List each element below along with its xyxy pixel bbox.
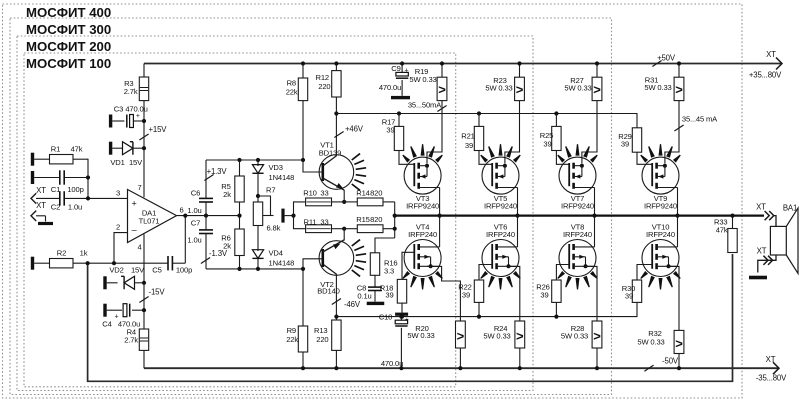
svg-text:IRFP240: IRFP240 [408, 230, 437, 239]
wire +50V rail [144, 63, 782, 65]
svg-text:XT: XT [36, 201, 46, 210]
node VT7 drain on output rail [592, 214, 596, 218]
mosfet VT5 IRFP9240 [482, 157, 519, 194]
svg-text:VD3: VD3 [269, 163, 283, 172]
ground bar speaker return [749, 276, 767, 280]
connector pin bar for VD2 [103, 276, 106, 289]
capacitor C8 [374, 275, 376, 286]
svg-text:2.7k: 2.7k [124, 336, 138, 345]
node R14 column on output rail [393, 214, 397, 218]
capacitor C4 electrolytic [107, 309, 122, 311]
svg-text:-1.3V: -1.3V [209, 249, 228, 258]
measuring slash -15V [139, 296, 148, 302]
heatsink of VT3 [402, 155, 410, 163]
diode VD3 [257, 160, 259, 166]
wire VT5 drain to output rail [517, 188, 519, 216]
node VD3 top [256, 158, 260, 162]
node R3 C3 junction [142, 119, 146, 123]
svg-text:2.7k: 2.7k [124, 87, 138, 96]
ground bar below C9 [391, 96, 410, 99]
wire to VT1 base [303, 160, 322, 172]
resistor R1 [50, 155, 74, 164]
resistor R23 5W 0.33 source top [519, 64, 521, 78]
svg-text:R9: R9 [287, 326, 296, 335]
node R13 on -50V rail [334, 366, 338, 370]
wire C5 riser to pin6 rail [184, 216, 186, 264]
wire VT10 drain to output rail [677, 216, 679, 247]
svg-text:XT: XT [757, 247, 767, 256]
svg-text:>: > [438, 82, 446, 97]
wiper arrow of R7 [263, 215, 274, 217]
svg-text:МОСФИТ 200: МОСФИТ 200 [26, 39, 111, 54]
wire pin 4 to -15V node [143, 234, 145, 368]
svg-text:820: 820 [370, 188, 382, 197]
svg-text:5W 0.33: 5W 0.33 [644, 83, 671, 92]
wire contact to R10 R11 node [285, 215, 294, 217]
connector XT pin for C1 [31, 171, 34, 184]
svg-text:>: > [675, 336, 683, 351]
svg-text:35...45 mA: 35...45 mA [682, 115, 718, 124]
capacitor C3 electrolytic [112, 120, 124, 122]
mosfet VT8 IRFP240 [559, 240, 596, 277]
svg-text:39: 39 [465, 141, 473, 150]
svg-text:39: 39 [540, 290, 548, 299]
wire VT6 source to R24 [508, 266, 520, 321]
wire R26 to VT8 gate [556, 265, 569, 281]
resistor R15 [344, 228, 357, 230]
svg-text:22k: 22k [286, 335, 298, 344]
svg-text:R13: R13 [314, 326, 327, 335]
node VT1 collector gate bus tee [334, 111, 338, 115]
svg-text:C5: C5 [152, 265, 161, 274]
svg-text:-50V: -50V [662, 356, 679, 365]
wire R1 to input node [87, 159, 89, 199]
resistor R8 [298, 78, 307, 101]
wire feedback bottom return [88, 254, 733, 381]
enclosure MOSFIT 300 dashed box [10, 18, 612, 395]
2W marks in R3 [140, 87, 148, 89]
svg-text:2k: 2k [223, 190, 231, 199]
node VT5 drain on output rail [515, 214, 519, 218]
resistor R12 [332, 71, 341, 97]
transistor VT1 BD139 [319, 155, 354, 190]
svg-text:-46V: -46V [344, 300, 361, 309]
svg-text:1N4148: 1N4148 [269, 259, 295, 268]
svg-text:IRFP9240: IRFP9240 [561, 202, 594, 211]
resistor R24 5W 0.33 source bottom [515, 321, 525, 348]
wire R22 to VT6 gate [479, 265, 492, 281]
svg-text:IRFP240: IRFP240 [563, 230, 592, 239]
svg-text:470.0u: 470.0u [381, 359, 403, 368]
svg-text:>: > [675, 82, 683, 97]
wire R23 to VT5 source [505, 101, 520, 164]
resistor R31 5W 0.33 source top [678, 64, 680, 78]
heatsink of VT5 [480, 155, 488, 163]
measuring slash +15V [139, 134, 148, 140]
svg-text:7: 7 [137, 183, 141, 192]
svg-text:C4: C4 [102, 319, 111, 328]
capacitor C9 electrolytic [401, 64, 403, 73]
svg-text:820: 820 [370, 215, 382, 224]
svg-text:R1: R1 [51, 145, 60, 154]
svg-text:5W 0.33: 5W 0.33 [637, 337, 664, 346]
resistor R22 gate bottom [474, 280, 483, 302]
svg-text:39: 39 [543, 140, 551, 149]
wire bottom bias rail [206, 268, 303, 270]
mosfet VT3 IRFP9240 [404, 157, 441, 194]
resistor R19 5W 0.33 source top [441, 64, 443, 78]
svg-text:IRFP9240: IRFP9240 [484, 202, 517, 211]
resistor R21 gate top [477, 111, 481, 115]
resistor R11 [306, 225, 332, 233]
svg-text:2k: 2k [223, 241, 231, 250]
speaker BA1 [770, 226, 786, 255]
svg-text:33: 33 [320, 188, 328, 197]
svg-text:R8: R8 [287, 79, 296, 88]
wire VT6 drain to output rail [517, 216, 519, 247]
resistor R33 [732, 216, 734, 229]
svg-text:220: 220 [316, 335, 328, 344]
resistor R5 [239, 160, 241, 176]
wire pin 7 to +15V node [143, 64, 145, 198]
svg-text:5W 0.33: 5W 0.33 [561, 331, 588, 340]
resistor R20 5W 0.33 source bottom [456, 321, 466, 348]
trimmer R7 [257, 196, 259, 202]
svg-text:1.0u: 1.0u [68, 203, 82, 212]
svg-text:R10: R10 [303, 188, 316, 197]
svg-text:+1.3V: +1.3V [207, 167, 228, 176]
svg-text:2: 2 [116, 223, 120, 232]
svg-text:+: + [131, 198, 136, 208]
2W marks in R4 [140, 337, 148, 339]
svg-text:1N4148: 1N4148 [269, 173, 295, 182]
wire VT8 drain to output rail [594, 216, 596, 247]
wire split to R11 row [294, 216, 306, 229]
zener diode VD1 [112, 147, 122, 149]
node R8 bias rail junction [301, 158, 305, 162]
node VD2 junction [142, 281, 146, 285]
capacitor C10 electrolytic [395, 313, 408, 316]
wire VT7 drain to output rail [594, 188, 596, 216]
node R10 R11 split [291, 214, 295, 218]
svg-text:+: + [405, 68, 409, 75]
wire R21 to VT5 gate [479, 151, 492, 165]
node VT2 emitter junction [342, 227, 346, 231]
node R5 top [237, 158, 241, 162]
svg-text:IRFP240: IRFP240 [646, 230, 675, 239]
wire -50V rail [144, 367, 779, 369]
wire pin 2 feedback [114, 233, 128, 264]
svg-text:6.8k: 6.8k [267, 224, 281, 233]
svg-text:R7: R7 [266, 186, 275, 195]
svg-text:R15: R15 [356, 215, 369, 224]
wire R31 to VT9 source [665, 101, 679, 164]
arrow speaker return double chevron [763, 256, 768, 265]
node C10 on -50V rail [399, 366, 403, 370]
svg-text:XT: XT [36, 186, 46, 195]
resistor R30 gate bottom [632, 280, 641, 302]
wire R30 to VT10 gate [637, 265, 652, 281]
node VT1 emitter junction [342, 200, 346, 204]
wire VT1 collector [335, 97, 337, 155]
svg-text:39: 39 [621, 140, 629, 149]
node input junction C2 [86, 196, 90, 200]
resistor R16 [370, 253, 379, 275]
wire to VT2 base [303, 259, 322, 269]
zener diode VD2 [107, 282, 118, 284]
svg-text:5W 0.33: 5W 0.33 [564, 84, 591, 93]
connector XT pin for R1 [31, 153, 34, 166]
node feedback junction [86, 261, 90, 265]
svg-text:МОСФИТ 400: МОСФИТ 400 [26, 5, 111, 20]
arrow -50V rail to XT [773, 362, 779, 374]
svg-text:1.0u: 1.0u [187, 206, 201, 215]
wire VT4 source to R20 [427, 266, 460, 321]
svg-text:+: + [136, 113, 140, 120]
svg-text:R11: R11 [304, 217, 317, 226]
svg-text:BD139: BD139 [319, 148, 341, 157]
resistor R32 5W 0.33 source bottom [674, 330, 684, 353]
measuring slash +1.3V [204, 174, 213, 180]
measuring slash on +50V rail [652, 60, 661, 66]
resistor R4 [139, 329, 148, 350]
wire VT4 drain to output rail [439, 216, 441, 247]
svg-text:XT: XT [766, 50, 776, 59]
node VT3 drain on output rail [438, 214, 442, 218]
svg-text:XT: XT [766, 355, 776, 364]
ground bar below C8 [367, 302, 385, 305]
enclosure MOSFIT 100 dashed box [24, 53, 456, 387]
node R33 on output rail [730, 214, 734, 218]
svg-text:R12: R12 [316, 73, 329, 82]
resistor R6 [239, 216, 241, 229]
svg-text:IRFP240: IRFP240 [486, 230, 515, 239]
node pin2 junction [112, 261, 116, 265]
svg-text:4: 4 [137, 243, 141, 252]
svg-text:470.0u: 470.0u [125, 105, 147, 114]
resistor R3 [139, 77, 148, 101]
svg-text:–: – [132, 224, 137, 234]
measuring slash +46V [334, 131, 343, 137]
resistor R26 gate bottom [552, 280, 561, 302]
svg-text:>: > [593, 82, 601, 97]
node R15 corner [393, 227, 397, 231]
svg-text:100p: 100p [176, 265, 192, 274]
capacitor C6 [205, 160, 207, 198]
transistor VT2 BD140 [319, 241, 354, 276]
svg-text:100p: 100p [67, 185, 83, 194]
heatsink of VT1 [352, 154, 360, 160]
measuring slash on -50V rail [644, 365, 653, 371]
svg-text:VD4: VD4 [269, 249, 283, 258]
wire VT2 emitter [343, 229, 345, 241]
svg-text:R2: R2 [57, 249, 66, 258]
resistor R9 [302, 269, 304, 326]
svg-text:C2: C2 [51, 203, 60, 212]
svg-text:33: 33 [320, 217, 328, 226]
measuring slash -46V [332, 298, 341, 304]
svg-text:>: > [457, 329, 465, 344]
svg-text:+15V: +15V [149, 125, 168, 134]
resistor R27 5W 0.33 source top [596, 64, 598, 78]
node VD1 junction [142, 146, 146, 150]
diode VD4 [252, 250, 263, 259]
wire bottom gate bus [336, 302, 637, 316]
svg-text:1.0u: 1.0u [187, 235, 201, 244]
arrow XT input ground to chassis [31, 211, 36, 221]
svg-text:R21: R21 [461, 132, 474, 141]
svg-text:15V: 15V [131, 265, 145, 274]
wire R25 to VT7 gate [556, 151, 569, 165]
mosfet VT9 IRFP9240 [642, 157, 679, 194]
measuring slash -1.3V [201, 257, 210, 263]
resistor R2 [34, 262, 49, 264]
ground chassis bar at input [38, 222, 53, 225]
svg-text:TL071: TL071 [139, 216, 160, 225]
wire VT3 drain to output rail [439, 188, 441, 216]
wire VT8 source to R28 [585, 266, 597, 321]
svg-text:47k: 47k [716, 225, 728, 234]
capacitor C7 [205, 216, 207, 230]
svg-text:15V: 15V [129, 158, 143, 167]
node VT2 collector gate bus tee [334, 315, 338, 319]
svg-text:5W 0.33: 5W 0.33 [409, 75, 436, 84]
svg-text:+35...80V: +35...80V [749, 71, 782, 80]
wire VT2 collector [335, 275, 337, 321]
wire top gate bus [336, 114, 637, 128]
connector pin bar for C4 [103, 304, 106, 317]
svg-text:5W 0.33: 5W 0.33 [485, 84, 512, 93]
svg-text:39: 39 [386, 126, 394, 135]
resistor R29 gate top [632, 128, 641, 152]
arrow +50V rail to XT [776, 58, 782, 70]
capacitor C2 [59, 191, 61, 205]
node VT9 drain on output rail [675, 214, 679, 218]
svg-text:C1: C1 [51, 185, 60, 194]
svg-text:C7: C7 [191, 218, 200, 227]
heatsink of VT10 [640, 271, 648, 279]
resistor R28 5W 0.33 source bottom [592, 321, 602, 348]
svg-text:>: > [516, 329, 524, 344]
capacitor C1 [34, 177, 59, 179]
op-amp DA1 TL071 triangle [128, 190, 177, 243]
wire R29 to VT9 gate [637, 152, 652, 164]
wire output arrow into speaker [774, 216, 776, 227]
svg-text:-15V: -15V [149, 287, 166, 296]
mosfet VT6 IRFP240 [482, 240, 519, 277]
wire output rail [395, 214, 764, 216]
wire VT10 source to R32 [668, 266, 679, 330]
svg-text:VD1: VD1 [110, 158, 124, 167]
svg-text:МОСФИТ 100: МОСФИТ 100 [26, 56, 111, 71]
svg-text:5W 0.33: 5W 0.33 [407, 331, 434, 340]
svg-text:>: > [516, 82, 524, 97]
connector pin bar for VD1 [109, 142, 112, 155]
enclosure MOSFIT 200 dashed box [17, 36, 533, 391]
wire top bias rail [206, 159, 303, 161]
resistor R17 gate top [397, 111, 401, 115]
wire pin 6 output [177, 215, 240, 217]
heatsink of VT8 [557, 271, 565, 279]
wire split to R10 row [294, 202, 306, 216]
mosfet VT10 IRFP240 [642, 240, 679, 277]
svg-text:C6: C6 [191, 188, 200, 197]
heatsink of VT6 [480, 271, 488, 279]
heatsink of VT7 [557, 155, 565, 163]
svg-text:6: 6 [179, 205, 183, 214]
svg-text:39: 39 [625, 292, 633, 301]
svg-text:C9: C9 [391, 64, 400, 73]
node input junction C1 [86, 175, 90, 179]
wire to R16 [375, 238, 395, 253]
wire speaker return [758, 255, 776, 273]
svg-text:>: > [593, 329, 601, 344]
resistor R13 [332, 320, 341, 350]
resistor R10 [306, 198, 332, 206]
svg-text:47k: 47k [71, 145, 83, 154]
heatsink of VT4 [402, 271, 410, 279]
svg-text:470.0u: 470.0u [379, 83, 401, 92]
resistor R18 gate bottom [397, 279, 406, 303]
svg-text:-35...80V: -35...80V [756, 374, 787, 383]
capacitor C5 [167, 256, 169, 270]
svg-text:+: + [405, 316, 409, 323]
svg-text:5W 0.33: 5W 0.33 [483, 331, 510, 340]
wire R19 to VT3 source [427, 101, 442, 164]
resistor R14 [344, 201, 357, 203]
heatsink of VT2 [352, 240, 360, 246]
svg-text:VD2: VD2 [109, 265, 123, 274]
node VD4 bottom [256, 267, 260, 271]
wire R14 R15 to output rail [394, 202, 396, 238]
node R7 top [256, 194, 260, 198]
svg-text:39: 39 [462, 290, 470, 299]
connector contact bar driver to gates [281, 209, 284, 223]
wire VT1 emitter [343, 191, 345, 202]
svg-text:IRFP9240: IRFP9240 [406, 202, 439, 211]
svg-text:22k: 22k [286, 88, 298, 97]
node C4 junction [142, 308, 146, 312]
wire R18 to VT4 gate [402, 252, 414, 279]
mosfet VT7 IRFP9240 [559, 157, 596, 194]
resistor R25 gate top [554, 111, 558, 115]
node R5 R6 pin6 junction [237, 214, 241, 218]
node R6 bottom [237, 267, 241, 271]
node R8 on +50V rail [301, 61, 305, 65]
arrow output to XT double chevron [765, 211, 770, 220]
svg-text:+46V: +46V [345, 124, 364, 133]
wire R27 to VT7 source [582, 101, 597, 164]
svg-text:3.3: 3.3 [384, 266, 394, 275]
svg-text:39: 39 [385, 291, 393, 300]
svg-text:IRFP9240: IRFP9240 [644, 202, 677, 211]
wire VT9 drain to output rail [677, 188, 679, 216]
node R9 bias rail junction [301, 267, 305, 271]
node R12 on +50V rail [334, 61, 338, 65]
arrow XT input signal [31, 193, 36, 203]
svg-text:1k: 1k [80, 249, 88, 258]
node C5 on pin6 rail [183, 214, 187, 218]
heatsink of VT9 [640, 155, 648, 163]
svg-text:МОСФИТ 300: МОСФИТ 300 [26, 22, 111, 37]
node C10 on bottom gate bus [399, 315, 403, 319]
svg-text:C10: C10 [379, 312, 392, 321]
svg-text:35...50mA: 35...50mA [408, 100, 442, 109]
node C6 C7 junction [204, 214, 208, 218]
wire R17 to VT3 gate [399, 151, 414, 165]
node R9 on -50V rail [301, 366, 305, 370]
svg-text:C3: C3 [114, 105, 123, 114]
